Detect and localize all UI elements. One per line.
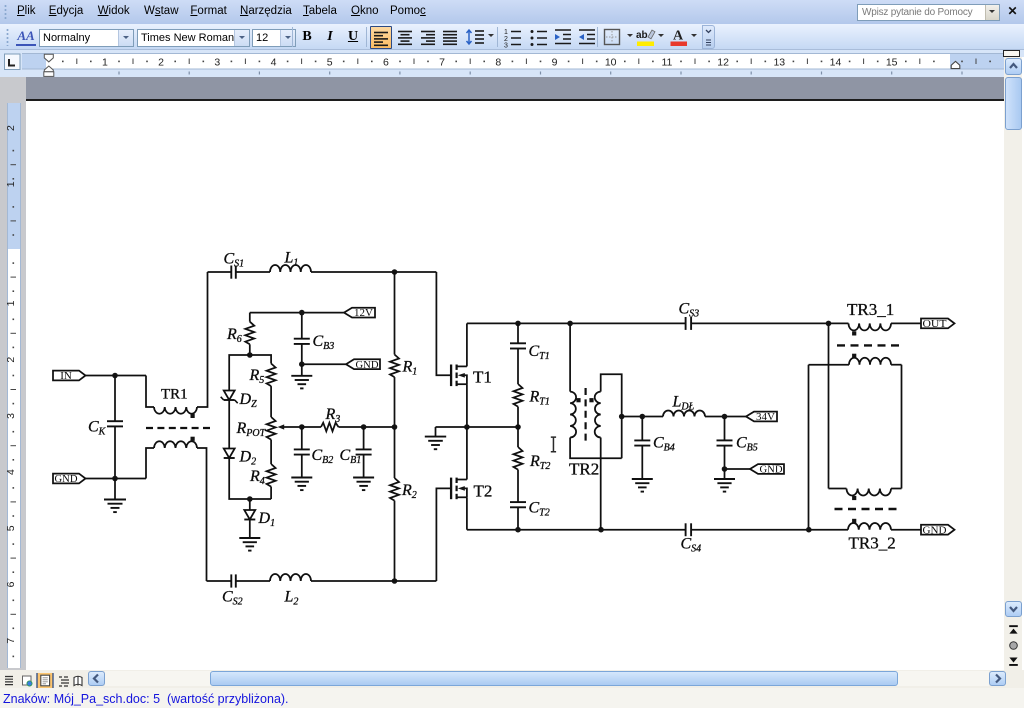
wire T1 source: [466, 384, 468, 427]
ground (CB4): [632, 479, 653, 492]
capacitor CB5: [717, 417, 758, 470]
transformer TR3_2 core: [835, 508, 902, 510]
svg-text:GND: GND: [356, 359, 379, 371]
inductor L2: [236, 574, 437, 608]
ground (CB1): [353, 478, 374, 491]
svg-text:GND: GND: [55, 473, 78, 485]
capacitor CT1: [510, 323, 550, 384]
capacitor CB2: [294, 427, 333, 478]
node CB5 top: [722, 414, 728, 420]
wire CB3 to GND flag: [302, 363, 346, 365]
transformer TR1 primary winding: [146, 272, 208, 414]
inductor L1: [236, 250, 437, 273]
svg-text:R2: R2: [401, 482, 417, 501]
svg-text:RT1: RT1: [529, 389, 550, 408]
transformer TR1 secondary winding: [146, 441, 207, 581]
wire T2 drain: [466, 427, 468, 480]
svg-text:RT2: RT2: [529, 453, 550, 472]
svg-text:CS2: CS2: [222, 589, 243, 608]
transformer TR3_1 core: [837, 344, 904, 346]
resistor R4: [249, 440, 276, 499]
resistor RT1: [514, 384, 550, 427]
node IN/CK junction: [112, 373, 118, 379]
wire TR3 right link: [901, 365, 903, 489]
TR1 phase dot secondary: [191, 437, 195, 441]
ground (source rail): [425, 427, 446, 449]
node CT2 bottom: [515, 527, 521, 533]
node R1/R2 junction: [392, 424, 398, 430]
node CB1 top: [361, 424, 367, 430]
zener diode DZ: [221, 391, 257, 411]
svg-text:OUT: OUT: [923, 318, 947, 330]
transformer TR3_1 secondary winding: [809, 358, 902, 365]
ground (CB5): [714, 469, 735, 492]
node CB3 bottom: [299, 361, 305, 367]
resistor R3: [302, 406, 395, 431]
connector flag GND (output): [921, 524, 955, 536]
node top rail / R1: [392, 269, 398, 275]
ground (CB3): [291, 364, 312, 388]
wire D2 to bottom of divider: [229, 458, 271, 499]
svg-text:LDŁ: LDŁ: [672, 394, 695, 413]
wire tap to LDL: [622, 416, 663, 418]
TR2 phase dot secondary: [589, 398, 593, 402]
wire zener branch: [229, 355, 250, 391]
svg-text:DZ: DZ: [239, 391, 258, 410]
connector flag 34V: [746, 411, 777, 423]
svg-text:L1: L1: [284, 250, 299, 269]
svg-text:T2: T2: [474, 482, 493, 501]
wire bottom rail to CS2: [207, 580, 232, 582]
svg-text:CK: CK: [88, 419, 107, 438]
ground (CB2): [291, 478, 312, 491]
connector flag GND (bias): [346, 359, 380, 371]
node T1 source / T2 drain: [464, 424, 470, 430]
svg-text:R1: R1: [402, 359, 418, 378]
svg-text:GND: GND: [923, 524, 947, 536]
svg-text:TR2: TR2: [569, 460, 599, 479]
svg-text:CT1: CT1: [529, 343, 550, 362]
wire TR3_1 sec left down: [808, 365, 810, 530]
svg-text:R6: R6: [226, 326, 242, 345]
transistor T2: [451, 478, 492, 501]
wire gate drop T1: [436, 272, 451, 375]
wire top rail to CS1: [208, 271, 232, 273]
transformer TR3_1 primary winding: [829, 323, 922, 330]
svg-text:12V: 12V: [354, 307, 373, 319]
node bottom gate rail / R2: [392, 578, 398, 584]
svg-text:R5: R5: [249, 367, 265, 386]
svg-text:RPOT: RPOT: [236, 420, 267, 439]
capacitor CB1: [340, 427, 372, 478]
wire GND rail left: [86, 478, 147, 480]
wire CB5 to GND flag: [725, 468, 751, 470]
svg-text:CT2: CT2: [529, 500, 550, 519]
capacitor CS1: [224, 251, 245, 279]
svg-text:CB3: CB3: [313, 333, 335, 352]
node 12V rail / CB3: [299, 310, 305, 316]
node GND rail / TR3_2: [806, 527, 812, 533]
label TR3_2: [849, 534, 896, 553]
wire DZ to D2: [228, 400, 230, 449]
diode D2: [224, 449, 256, 468]
transformer TR3_2 secondary winding: [829, 489, 902, 496]
wire IN rail: [86, 375, 147, 377]
svg-text:CS1: CS1: [224, 251, 245, 270]
capacitor CK: [88, 376, 123, 479]
svg-text:CB2: CB2: [312, 447, 334, 466]
svg-text:TR3_2: TR3_2: [849, 534, 896, 553]
potentiometer RPOT: [236, 417, 302, 440]
svg-text:IN: IN: [60, 370, 72, 382]
svg-text:D2: D2: [239, 449, 257, 468]
wire T2 source: [466, 497, 468, 529]
transformer TR2 primary winding: [570, 323, 622, 458]
label TR3_1: [847, 300, 894, 319]
TR3_2 phase dot primary: [852, 519, 856, 523]
node CB4 top: [640, 414, 646, 420]
connector flag IN: [53, 370, 86, 382]
mouse I-beam cursor: [551, 437, 556, 452]
wire 12V bias rail: [250, 312, 344, 314]
transistor T1: [451, 365, 492, 387]
TR3_2 phase dot secondary: [852, 496, 856, 500]
transformer TR2 core: [584, 388, 586, 442]
transformer TR1 core: [146, 427, 210, 429]
svg-text:CS3: CS3: [679, 301, 700, 320]
connector flag GND (34V side): [750, 464, 784, 476]
node R6 bottom: [247, 352, 253, 358]
svg-text:TR1: TR1: [161, 387, 188, 403]
svg-text:R4: R4: [249, 468, 265, 487]
wire source rail: [436, 426, 519, 428]
transformer TR2 secondary winding: [595, 374, 622, 529]
capacitor CS3: [679, 301, 700, 330]
TR3_1 phase dot secondary: [852, 354, 856, 358]
node D1 top: [247, 496, 253, 502]
wire top T rail: [467, 322, 686, 324]
connector flag OUT: [921, 318, 955, 330]
wire bottom T rail: [467, 529, 686, 531]
capacitor CB3: [294, 313, 334, 365]
node TR2 tap: [619, 414, 625, 420]
capacitor CS4: [681, 523, 702, 554]
diode D1: [244, 499, 275, 529]
wire T1 drain: [466, 323, 468, 366]
ground (input): [104, 479, 126, 513]
svg-text:CB4: CB4: [653, 435, 675, 454]
inductor LDL: [663, 394, 746, 417]
resistor R2: [390, 427, 417, 581]
node CB5 bottom: [722, 466, 728, 472]
TR3_1 phase dot primary: [852, 331, 856, 335]
svg-text:CB5: CB5: [736, 435, 758, 454]
svg-text:R3: R3: [325, 406, 341, 425]
node TR2 top: [567, 321, 573, 327]
resistor R5: [249, 355, 276, 417]
ground (D1): [239, 520, 260, 551]
connector flag 12V: [344, 307, 375, 319]
svg-text:CS4: CS4: [681, 536, 702, 555]
wire CS4 to TR3_2: [691, 529, 809, 531]
resistor RT2: [514, 427, 551, 502]
wire gate drop T2: [436, 488, 451, 581]
capacitor CB4: [634, 417, 674, 480]
node CT1 top: [515, 321, 521, 327]
node source rail / RT divider: [515, 424, 521, 430]
svg-text:L2: L2: [284, 589, 299, 608]
svg-text:GND: GND: [760, 464, 783, 476]
svg-text:34V: 34V: [756, 411, 775, 423]
svg-text:T1: T1: [473, 368, 492, 387]
svg-text:TR3_1: TR3_1: [847, 300, 894, 319]
node RPOT wiper / CB2: [299, 424, 305, 430]
connector flag GND (input): [53, 473, 86, 485]
wire CS3 to output node: [691, 322, 828, 324]
capacitor CT2: [510, 500, 550, 530]
node output rail / TR3_1: [826, 321, 832, 327]
resistor R1: [390, 272, 417, 427]
node GND/CK junction: [112, 476, 118, 482]
transformer TR3_2 primary winding: [809, 523, 921, 530]
TR1 phase dot primary: [191, 414, 195, 418]
TR2 phase dot primary: [576, 398, 580, 402]
svg-text:D1: D1: [258, 510, 276, 529]
wire TR3 cross link: [828, 323, 830, 488]
resistor R6: [226, 313, 254, 355]
capacitor CS2: [222, 574, 243, 607]
label TR2: [569, 460, 599, 479]
node TR2 bottom: [598, 527, 604, 533]
label TR1: [161, 387, 188, 403]
